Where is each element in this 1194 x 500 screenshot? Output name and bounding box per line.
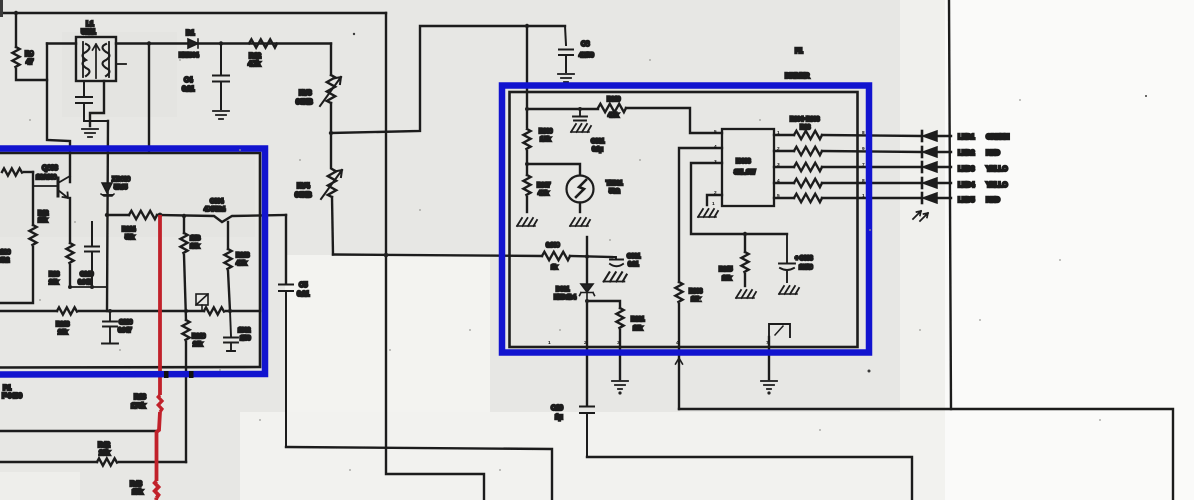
svg-text:RV4: RV4 (297, 183, 310, 190)
ground R307 (517, 218, 537, 226)
svg-text:R23: R23 (800, 124, 811, 131)
resistor R310 (598, 104, 626, 112)
pin digits (548, 129, 865, 346)
wire RV junction to top loop (331, 26, 565, 133)
svg-text:R42: R42 (98, 442, 110, 449)
wire IC pin2 vertical (679, 148, 722, 282)
svg-text:10k: 10k (722, 275, 732, 282)
svg-text:R213: R213 (56, 321, 70, 328)
svg-text:IC303: IC303 (736, 158, 751, 165)
wire bus 311 (0, 310, 57, 312)
svg-text:1μ: 1μ (555, 414, 562, 421)
ground for C8 (558, 74, 574, 82)
svg-text:C304: C304 (210, 198, 224, 205)
svg-text:7: 7 (766, 340, 769, 346)
wire red net vertical (158, 215, 162, 395)
svg-text:30KB: 30KB (295, 192, 312, 199)
svg-text:5A05: 5A05 (114, 184, 128, 191)
svg-text:R303: R303 (689, 288, 703, 295)
svg-text:4.7k: 4.7k (538, 190, 549, 197)
capacitor C5 (279, 285, 293, 448)
wire feed into box1 (148, 44, 150, 153)
wire vertical R17B / R216 chain (183, 216, 185, 233)
svg-text:TH301: TH301 (606, 180, 623, 187)
thermistor TH301 (567, 176, 594, 213)
op-amp IC303 box (722, 129, 774, 206)
svg-text:12k: 12k (190, 243, 200, 250)
wire base network vertical (32, 172, 34, 225)
svg-text:R214: R214 (122, 226, 136, 233)
svg-text:4: 4 (777, 178, 780, 184)
resistor R306 (523, 129, 530, 149)
ground for C4 (213, 111, 229, 119)
svg-text:R43: R43 (130, 481, 142, 488)
svg-text:C206: C206 (119, 319, 133, 326)
node d301 tee (585, 254, 589, 258)
svg-text:R12: R12 (249, 53, 261, 60)
svg-text:DRIVER: DRIVER (785, 73, 809, 80)
ground C303 (779, 286, 799, 294)
wire bottom feed 462 with R42 (0, 461, 97, 463)
resistor R17B (180, 233, 187, 253)
svg-text:R28: R28 (49, 271, 60, 278)
svg-text:2: 2 (777, 146, 780, 152)
wire right drop of top bus (386, 13, 484, 500)
svg-text:1302: 1302 (238, 327, 251, 334)
svg-text:1k: 1k (551, 264, 558, 271)
svg-text:170k: 170k (131, 403, 145, 410)
svg-text:YELLO: YELLO (986, 166, 1008, 173)
svg-text:LED5: LED5 (958, 197, 975, 204)
svg-text:0.21: 0.21 (297, 291, 310, 298)
capacitor C10 (580, 407, 594, 458)
svg-text:5: 5 (714, 129, 717, 135)
resistor R307 (523, 175, 530, 195)
svg-text:23k: 23k (99, 450, 110, 457)
svg-text:R315: R315 (719, 266, 733, 273)
node th tee (525, 162, 529, 166)
wire left vertical feed (47, 44, 70, 183)
svg-text:1.5k: 1.5k (540, 136, 551, 143)
svg-text:8: 8 (862, 178, 865, 184)
svg-text:0.047: 0.047 (118, 327, 132, 334)
ground R321 (612, 381, 628, 389)
LED2 (922, 147, 951, 157)
red trace (155, 215, 162, 500)
svg-text:R216: R216 (192, 333, 206, 340)
svg-text:15k: 15k (132, 489, 143, 496)
resistor R315 (744, 234, 746, 252)
svg-text:LED2: LED2 (958, 150, 975, 157)
node D1 junction (147, 41, 151, 45)
wire C5 to bottom right (286, 447, 552, 500)
svg-text:0.01: 0.01 (628, 261, 639, 268)
svg-text:5: 5 (777, 193, 780, 199)
svg-text:YELLO: YELLO (986, 182, 1008, 189)
svg-text:1: 1 (548, 340, 551, 346)
wire LED row 3 (774, 166, 794, 168)
wire LED row 2 (774, 150, 794, 152)
wire transformer secondary out (116, 42, 331, 44)
wire bottom feed 431 (0, 430, 157, 432)
resistor on bus segment (204, 307, 224, 314)
svg-text:P1: P1 (3, 385, 11, 392)
node red start (158, 213, 163, 218)
svg-text:0.009: 0.009 (546, 242, 560, 249)
LED3 (922, 162, 951, 172)
wire RV4 to box2 (333, 255, 542, 257)
transformer primary bottom cap (76, 81, 108, 121)
svg-text:1: 1 (712, 201, 715, 207)
svg-text:4.7k: 4.7k (236, 260, 247, 267)
node bus311 right (228, 309, 232, 313)
blue highlight box2 (502, 86, 869, 353)
svg-text:F1: F1 (795, 48, 803, 55)
wire top inner bus (527, 108, 598, 110)
pin ticks box1 (164, 371, 194, 378)
svg-text:RED: RED (986, 150, 1000, 157)
resistor R214 (129, 211, 157, 219)
svg-text:SEL.SW: SEL.SW (734, 169, 756, 176)
capacitor C240 (85, 222, 99, 287)
node top-left junction (14, 11, 18, 15)
svg-text:RV3: RV3 (299, 90, 312, 97)
svg-text:0.1μ: 0.1μ (592, 146, 603, 153)
svg-text:C240: C240 (80, 271, 94, 278)
ground connector (761, 381, 777, 389)
scan specks (0, 0, 1147, 373)
wire to thermistor (527, 164, 580, 175)
svg-text:GREEN: GREEN (986, 134, 1009, 141)
wire R309 input (542, 252, 570, 260)
wire zener to R321 (587, 301, 620, 308)
svg-text:2k2: 2k2 (0, 257, 10, 264)
wire C10 bottom run (587, 457, 912, 500)
svg-text:17B: 17B (190, 235, 201, 242)
svg-text:Z D606: Z D606 (112, 176, 131, 183)
wire IC pin3 branch (691, 163, 787, 234)
node C8 tee (525, 24, 529, 28)
svg-text:R13: R13 (134, 394, 146, 401)
svg-text:13k: 13k (38, 217, 48, 224)
svg-text:D301: D301 (556, 286, 570, 293)
svg-text:RED: RED (986, 197, 1000, 204)
potentiometer RV3 (320, 44, 341, 169)
svg-text:0.21: 0.21 (182, 86, 195, 93)
ground R315 (736, 290, 756, 298)
svg-text:C10: C10 (551, 405, 563, 412)
ground C301 (604, 272, 627, 281)
connector tab (769, 324, 790, 379)
svg-text:3: 3 (617, 340, 620, 346)
potentiometer RV4 (321, 169, 342, 255)
svg-text:23k: 23k (58, 329, 68, 336)
node emitter bottom (68, 285, 72, 289)
wire IC pin4 ground (707, 195, 722, 205)
wire top supply bus (0, 12, 386, 14)
svg-text:R12: R12 (38, 210, 49, 217)
svg-text:1C6: 1C6 (0, 249, 11, 256)
LED emission arrows (913, 211, 928, 221)
inner black frame box1 (0, 153, 260, 368)
svg-text:47: 47 (26, 59, 33, 66)
zener D606 (101, 183, 114, 196)
svg-text:R304~R308: R304~R308 (790, 116, 820, 123)
capacitor C206 (102, 311, 118, 344)
svg-text:LED4: LED4 (958, 182, 975, 189)
resistor R216 (182, 320, 189, 340)
wire LED row 5 (774, 197, 794, 199)
svg-text:0.047: 0.047 (78, 279, 92, 286)
transistor Q603 (33, 176, 70, 198)
svg-text:U111: U111 (81, 29, 96, 36)
LED5 (922, 193, 951, 203)
svg-text:3: 3 (777, 162, 780, 168)
node RV junction (329, 131, 333, 135)
svg-text:L1: L1 (86, 21, 94, 28)
ground TH301 (570, 218, 590, 226)
wire bus215 to C5 drop (285, 215, 287, 283)
svg-text:2: 2 (584, 340, 587, 346)
wire LED row 4 (774, 182, 794, 184)
svg-text:9: 9 (862, 146, 865, 152)
svg-text:HZ1084: HZ1084 (179, 52, 199, 59)
wire LED cathode rail (949, 0, 951, 409)
svg-text:30KB: 30KB (296, 99, 313, 106)
wire long bottom run (679, 409, 1173, 500)
wire stub above node (586, 237, 588, 257)
diode D1 (188, 39, 198, 48)
ground C302 (571, 124, 591, 132)
transformer bottom right lead (90, 81, 104, 126)
resistor R213 (57, 307, 77, 314)
svg-text:4: 4 (714, 144, 717, 150)
resistor R12 (249, 39, 277, 47)
svg-text:10/16: 10/16 (799, 264, 813, 271)
inner black frame box2 (510, 92, 858, 347)
svg-text:R306: R306 (539, 128, 553, 135)
capacitor C301 (610, 257, 623, 266)
resistor R13 on red (158, 395, 162, 412)
svg-text:4.7k: 4.7k (248, 61, 261, 68)
wire bus 215 with resistor R214 (107, 214, 129, 216)
resistor R321 (616, 308, 623, 328)
capacitor C302a (224, 311, 238, 351)
svg-text:1/50: 1/50 (240, 335, 251, 342)
resistor R28 emitter (69, 198, 71, 243)
svg-text:4: 4 (676, 340, 679, 346)
node x386 junction (384, 253, 389, 258)
svg-text:LED1: LED1 (958, 134, 975, 141)
pin arrow box2 bottom (676, 352, 683, 364)
svg-text:R307: R307 (537, 182, 551, 189)
node bus215 mid (182, 214, 186, 218)
svg-text:4.7/50: 4.7/50 (579, 52, 595, 59)
wire zener bottom down (586, 301, 588, 405)
svg-text:7: 7 (862, 162, 865, 168)
svg-text:1: 1 (777, 130, 780, 136)
svg-text:HZS 1b4: HZS 1b4 (554, 294, 577, 301)
svg-text:C5: C5 (299, 282, 308, 289)
resistor base input (2, 168, 22, 175)
capacitor C302 tap (573, 109, 587, 121)
varistor symbol on bus (196, 294, 208, 311)
svg-text:R310: R310 (607, 96, 621, 103)
blue highlight box1 (0, 149, 265, 375)
wire box2 feed vertical (526, 26, 528, 127)
svg-text:C4: C4 (184, 77, 193, 84)
zener D301 (586, 257, 588, 285)
svg-text:4.7k: 4.7k (608, 112, 619, 119)
resistor R43 on red (155, 481, 159, 498)
capacitor C303 (779, 234, 795, 282)
svg-text:23k: 23k (193, 341, 203, 348)
svg-text:494 5Ω4: 494 5Ω4 (204, 206, 226, 213)
resistor R218 (227, 222, 229, 249)
LED1 (922, 131, 951, 141)
svg-text:R218: R218 (236, 252, 250, 259)
svg-text:F-0430: F-0430 (2, 393, 22, 400)
capacitor C8 (559, 26, 573, 72)
svg-text:8: 8 (862, 130, 865, 136)
resistor R42 (97, 458, 117, 465)
resistor R303 (675, 282, 682, 302)
resistor R9 (15, 13, 17, 47)
LED4 (922, 178, 951, 188)
svg-text:D1: D1 (186, 30, 195, 37)
node bus311 cross (184, 309, 188, 313)
ground IC (698, 209, 718, 217)
svg-text:Q603: Q603 (42, 165, 58, 172)
svg-text:50Ω: 50Ω (609, 188, 620, 195)
svg-text:C301: C301 (591, 138, 605, 145)
svg-text:10k: 10k (633, 325, 643, 332)
svg-text:57k: 57k (125, 234, 135, 241)
svg-text:2: 2 (714, 190, 717, 196)
svg-text:23k: 23k (49, 279, 59, 286)
svg-text:1: 1 (862, 193, 865, 199)
svg-text:R321: R321 (631, 316, 645, 323)
svg-text:LED3: LED3 (958, 166, 975, 173)
svg-text:+ C303: + C303 (795, 255, 813, 262)
capacitor C4 (213, 41, 229, 109)
wire LED row 1 (774, 134, 794, 136)
svg-text:1CA806: 1CA806 (36, 174, 57, 181)
resistor R12b (29, 225, 36, 245)
transformer L1 U111 (76, 37, 126, 81)
wire into transformer (47, 42, 76, 44)
svg-text:R9: R9 (25, 51, 34, 58)
wire main vertical with zener (107, 121, 108, 311)
node R315 tee (743, 232, 747, 236)
svg-text:3: 3 (714, 159, 717, 165)
ground transformer (82, 129, 98, 137)
svg-text:C8: C8 (581, 41, 590, 48)
wire emitter to C240 (70, 286, 107, 288)
node bus215 left (105, 213, 109, 217)
svg-text:C301: C301 (627, 253, 641, 260)
